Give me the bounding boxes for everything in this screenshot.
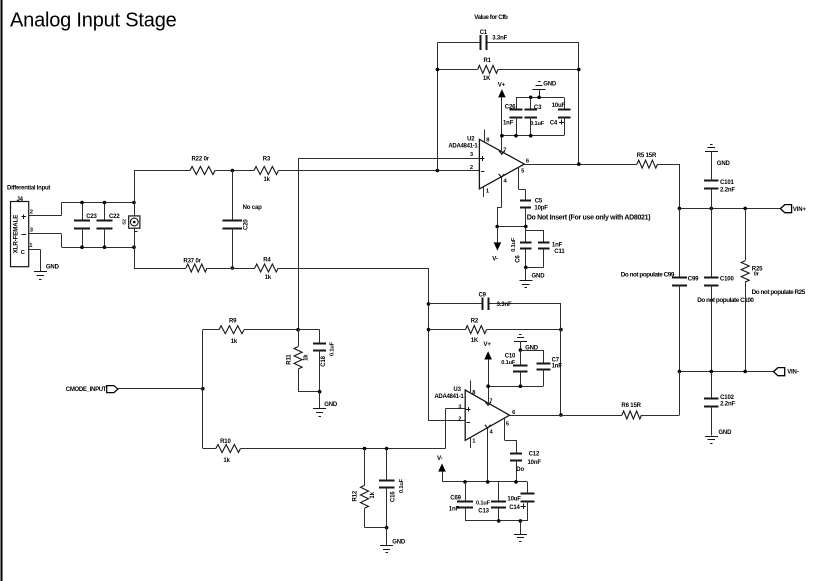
svg-text:0.1uF: 0.1uF [530, 121, 545, 127]
svg-text:GND: GND [543, 82, 557, 88]
svg-text:1k: 1k [370, 491, 376, 498]
svg-text:GND: GND [718, 430, 732, 436]
svg-text:1K: 1K [483, 76, 491, 82]
svg-text:1k: 1k [264, 177, 271, 183]
svg-text:U2: U2 [467, 137, 475, 143]
svg-text:V-: V- [437, 455, 443, 462]
svg-text:3.3nF: 3.3nF [492, 36, 507, 42]
svg-text:R6 15R: R6 15R [621, 403, 641, 409]
svg-text:C3: C3 [534, 105, 542, 111]
svg-text:1nF: 1nF [552, 363, 563, 369]
svg-text:1K: 1K [471, 338, 479, 344]
svg-text:2: 2 [30, 210, 33, 216]
svg-text:Do: Do [516, 467, 524, 473]
svg-text:C14: C14 [509, 505, 520, 511]
svg-text:C11: C11 [554, 249, 565, 255]
svg-text:0.1uF: 0.1uF [476, 501, 491, 507]
svg-text:VIN-: VIN- [787, 370, 799, 376]
svg-text:2.2nF: 2.2nF [720, 187, 735, 193]
svg-text:C101: C101 [720, 180, 735, 186]
svg-text:C4: C4 [550, 120, 558, 126]
svg-text:1nF: 1nF [449, 507, 460, 513]
svg-text:C23: C23 [86, 214, 97, 220]
svg-text:C99: C99 [688, 276, 699, 282]
svg-text:2: 2 [470, 165, 473, 171]
svg-text:R4: R4 [263, 258, 271, 264]
svg-text:V+: V+ [483, 341, 491, 348]
svg-text:C102: C102 [720, 395, 735, 401]
svg-text:0.1uF: 0.1uF [399, 478, 405, 493]
svg-text:10uF: 10uF [507, 496, 521, 502]
svg-text:Do Not Insert (For use only wi: Do Not Insert (For use only with AD8021) [527, 214, 650, 221]
svg-text:2.2nF: 2.2nF [720, 402, 735, 408]
svg-text:R2: R2 [471, 319, 479, 325]
svg-text:1nF: 1nF [552, 243, 563, 249]
svg-text:7: 7 [503, 148, 506, 154]
svg-text:GND: GND [717, 161, 731, 167]
svg-text:R12: R12 [353, 490, 359, 501]
svg-text:10pF: 10pF [534, 206, 548, 212]
svg-text:No cap: No cap [243, 205, 263, 211]
svg-text:R1: R1 [484, 58, 492, 64]
svg-text:C100: C100 [720, 276, 735, 282]
svg-text:R37 0r: R37 0r [183, 259, 201, 265]
svg-text:XLR-FEMALE: XLR-FEMALE [13, 215, 20, 253]
svg-text:1k: 1k [265, 275, 272, 281]
svg-text:U3: U3 [453, 387, 461, 393]
svg-text:0.1uF: 0.1uF [501, 360, 516, 366]
svg-text:R11: R11 [286, 354, 292, 365]
svg-text:R10: R10 [220, 439, 231, 445]
svg-text:C13: C13 [478, 509, 489, 515]
svg-text:1nF: 1nF [503, 121, 514, 127]
svg-text:0.1uF: 0.1uF [329, 341, 335, 356]
svg-text:C22: C22 [109, 214, 120, 220]
svg-text:10uF: 10uF [552, 103, 566, 109]
svg-text:GND: GND [532, 274, 546, 280]
svg-text:VIN+: VIN+ [793, 207, 807, 213]
svg-text:GND: GND [324, 402, 338, 408]
svg-text:C20: C20 [243, 219, 249, 230]
svg-text:Analog Input Stage: Analog Input Stage [10, 10, 177, 32]
svg-text:GND: GND [392, 540, 406, 546]
svg-text:C16: C16 [390, 491, 396, 502]
svg-text:R9: R9 [229, 319, 237, 325]
svg-text:V+: V+ [498, 81, 506, 88]
svg-text:C12: C12 [529, 452, 540, 458]
svg-text:V-: V- [492, 256, 498, 263]
svg-text:0.1uF: 0.1uF [511, 237, 517, 252]
svg-text:2: 2 [458, 417, 461, 423]
svg-text:C5: C5 [535, 199, 543, 205]
svg-text:Value for Cfb: Value for Cfb [474, 14, 508, 21]
svg-text:C69: C69 [450, 495, 461, 501]
svg-text:ADA4841-1: ADA4841-1 [434, 394, 464, 400]
svg-text:10nF: 10nF [528, 460, 542, 466]
svg-text:1k: 1k [223, 458, 230, 464]
svg-text:C1: C1 [480, 30, 488, 36]
svg-text:GND: GND [46, 265, 60, 271]
svg-text:ADA4841-1: ADA4841-1 [448, 143, 478, 149]
svg-text:1k: 1k [304, 354, 310, 361]
svg-text:R5 15R: R5 15R [637, 153, 657, 159]
svg-text:C18: C18 [321, 355, 327, 366]
svg-text:Differential Input: Differential Input [7, 186, 50, 192]
svg-text:1k: 1k [231, 339, 238, 345]
svg-text:Do not populate C99: Do not populate C99 [621, 272, 675, 279]
svg-text:Do not populate R25: Do not populate R25 [752, 289, 806, 296]
svg-text:CMODE_INPUT: CMODE_INPUT [66, 387, 107, 393]
svg-text:C9: C9 [479, 293, 487, 299]
svg-text:R3: R3 [263, 157, 271, 163]
svg-text:S2: S2 [122, 219, 128, 225]
svg-text:3.3nF: 3.3nF [497, 302, 512, 308]
svg-text:C26: C26 [505, 105, 516, 111]
svg-text:C10: C10 [505, 354, 516, 360]
svg-text:R22 0r: R22 0r [192, 157, 210, 163]
svg-text:C6: C6 [516, 255, 522, 263]
svg-text:7: 7 [489, 399, 492, 405]
